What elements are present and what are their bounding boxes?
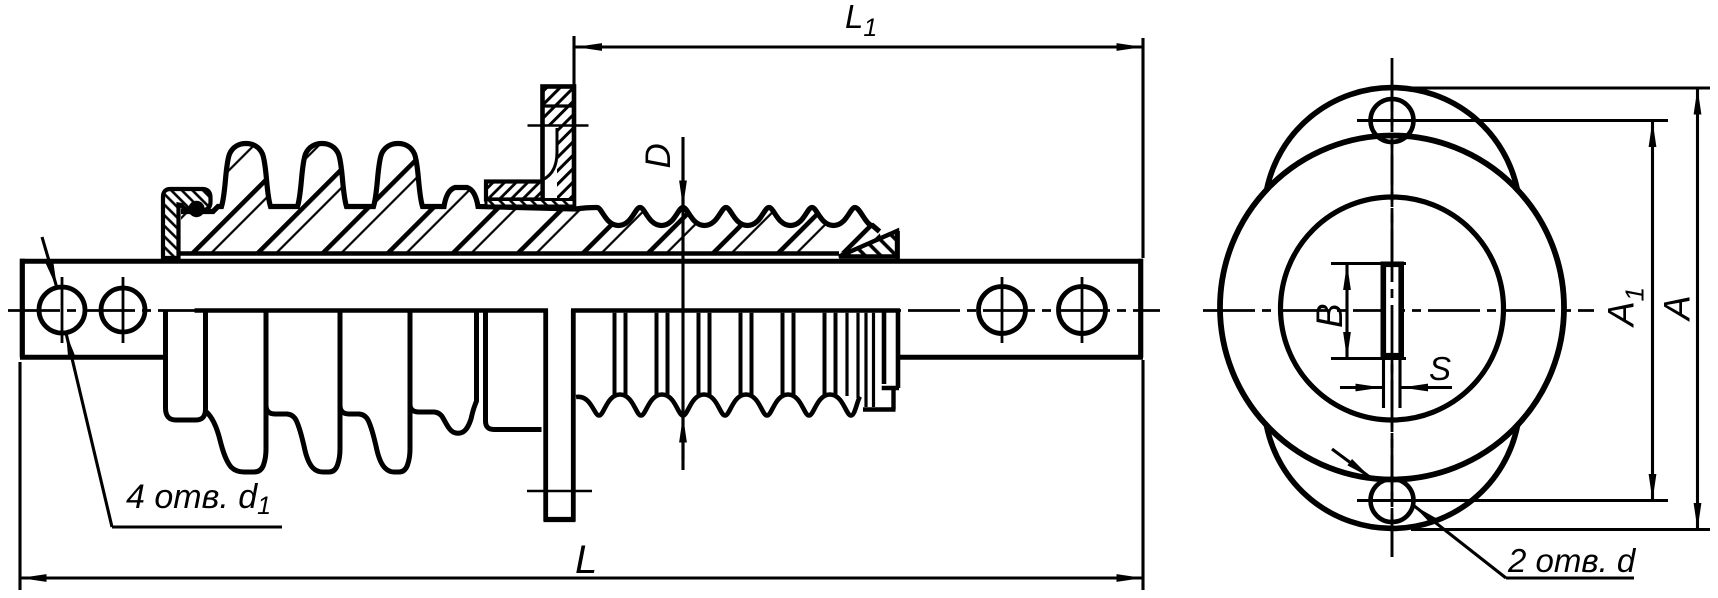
svg-text:L1: L1 [845,0,877,42]
svg-text:B: B [1309,303,1350,328]
svg-text:A1: A1 [1601,287,1650,328]
svg-text:S: S [1429,350,1451,387]
svg-text:D: D [639,143,678,168]
svg-text:2 отв. d: 2 отв. d [1507,542,1637,579]
svg-text:4 отв. d1: 4 отв. d1 [126,478,271,520]
svg-text:A: A [1657,295,1698,322]
svg-text:L: L [575,538,597,582]
